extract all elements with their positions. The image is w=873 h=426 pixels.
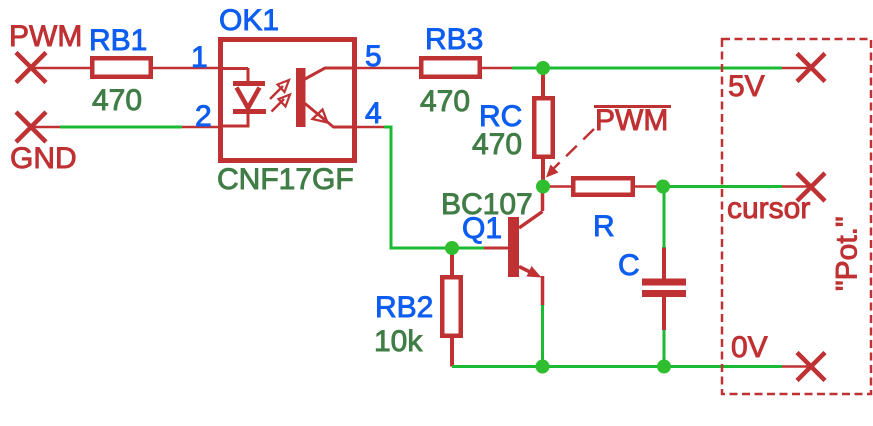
- svg-text:RB1: RB1: [89, 24, 147, 57]
- svg-text:"Pot.": "Pot.": [831, 216, 864, 291]
- svg-text:470: 470: [420, 85, 470, 118]
- svg-text:Q1: Q1: [462, 212, 502, 245]
- svg-text:5: 5: [365, 40, 382, 73]
- svg-text:4: 4: [365, 97, 382, 130]
- svg-text:cursor: cursor: [727, 192, 810, 225]
- svg-text:OK1: OK1: [219, 4, 279, 37]
- svg-text:R: R: [593, 210, 615, 243]
- svg-text:470: 470: [92, 84, 142, 117]
- svg-text:0V: 0V: [731, 331, 768, 364]
- svg-text:PWM: PWM: [595, 104, 668, 137]
- svg-text:RB3: RB3: [425, 23, 483, 56]
- svg-text:PWM: PWM: [9, 20, 82, 53]
- svg-text:5V: 5V: [728, 70, 765, 103]
- svg-text:10k: 10k: [374, 325, 423, 358]
- svg-text:2: 2: [195, 100, 212, 133]
- svg-text:470: 470: [472, 128, 522, 161]
- svg-text:1: 1: [191, 41, 208, 74]
- svg-text:GND: GND: [10, 142, 77, 175]
- svg-text:CNF17GF: CNF17GF: [217, 163, 354, 196]
- svg-text:C: C: [618, 249, 640, 282]
- svg-text:RB2: RB2: [375, 291, 433, 324]
